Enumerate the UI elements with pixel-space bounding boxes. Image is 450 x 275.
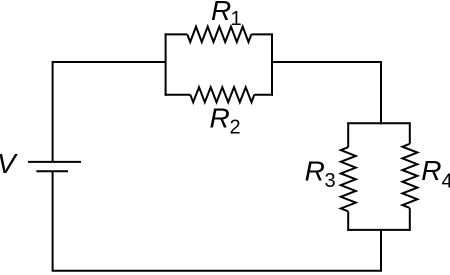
wire R1 left lead: [165, 33, 188, 35]
svg-text:2: 2: [230, 116, 241, 138]
svg-text:R: R: [211, 0, 231, 26]
battery V top plate: [28, 161, 81, 163]
svg-text:V: V: [0, 148, 18, 179]
resistor R4: [402, 144, 417, 208]
resistor R2: [190, 87, 254, 102]
wire R3 top lead: [347, 122, 349, 147]
svg-text:3: 3: [325, 170, 336, 192]
wire R4 bottom lead: [409, 208, 411, 231]
wire parallel-block-1 right bar: [271, 33, 273, 95]
wire R2 left lead: [165, 94, 191, 96]
wire parallel-block-1 left bar: [165, 33, 167, 95]
wire R1 right lead: [251, 33, 273, 35]
label R1: [211, 0, 242, 30]
wire parallel-block-2 top bar: [347, 122, 410, 124]
wire top-right (block 1 to block 2): [271, 62, 381, 124]
battery V bottom plate: [36, 170, 68, 172]
svg-text:4: 4: [442, 171, 450, 193]
svg-text:R: R: [305, 155, 325, 186]
resistor R3: [341, 147, 356, 211]
wire R3 bottom lead: [347, 211, 349, 231]
svg-text:R: R: [210, 103, 230, 134]
wire R4 top lead: [409, 122, 411, 144]
label R4: [421, 155, 450, 193]
resistor R1: [187, 27, 251, 42]
wire left-and-top (battery top to parallel block 1): [53, 62, 166, 162]
label R2: [210, 103, 241, 139]
wire R2 right lead: [254, 94, 273, 96]
svg-text:R: R: [421, 155, 441, 186]
label R3: [305, 155, 336, 192]
wire parallel-block-2 bottom bar: [347, 229, 410, 231]
wire left-bottom-right (battery bottom, bottom rail, up to block 2): [53, 171, 381, 271]
svg-text:1: 1: [231, 8, 242, 30]
